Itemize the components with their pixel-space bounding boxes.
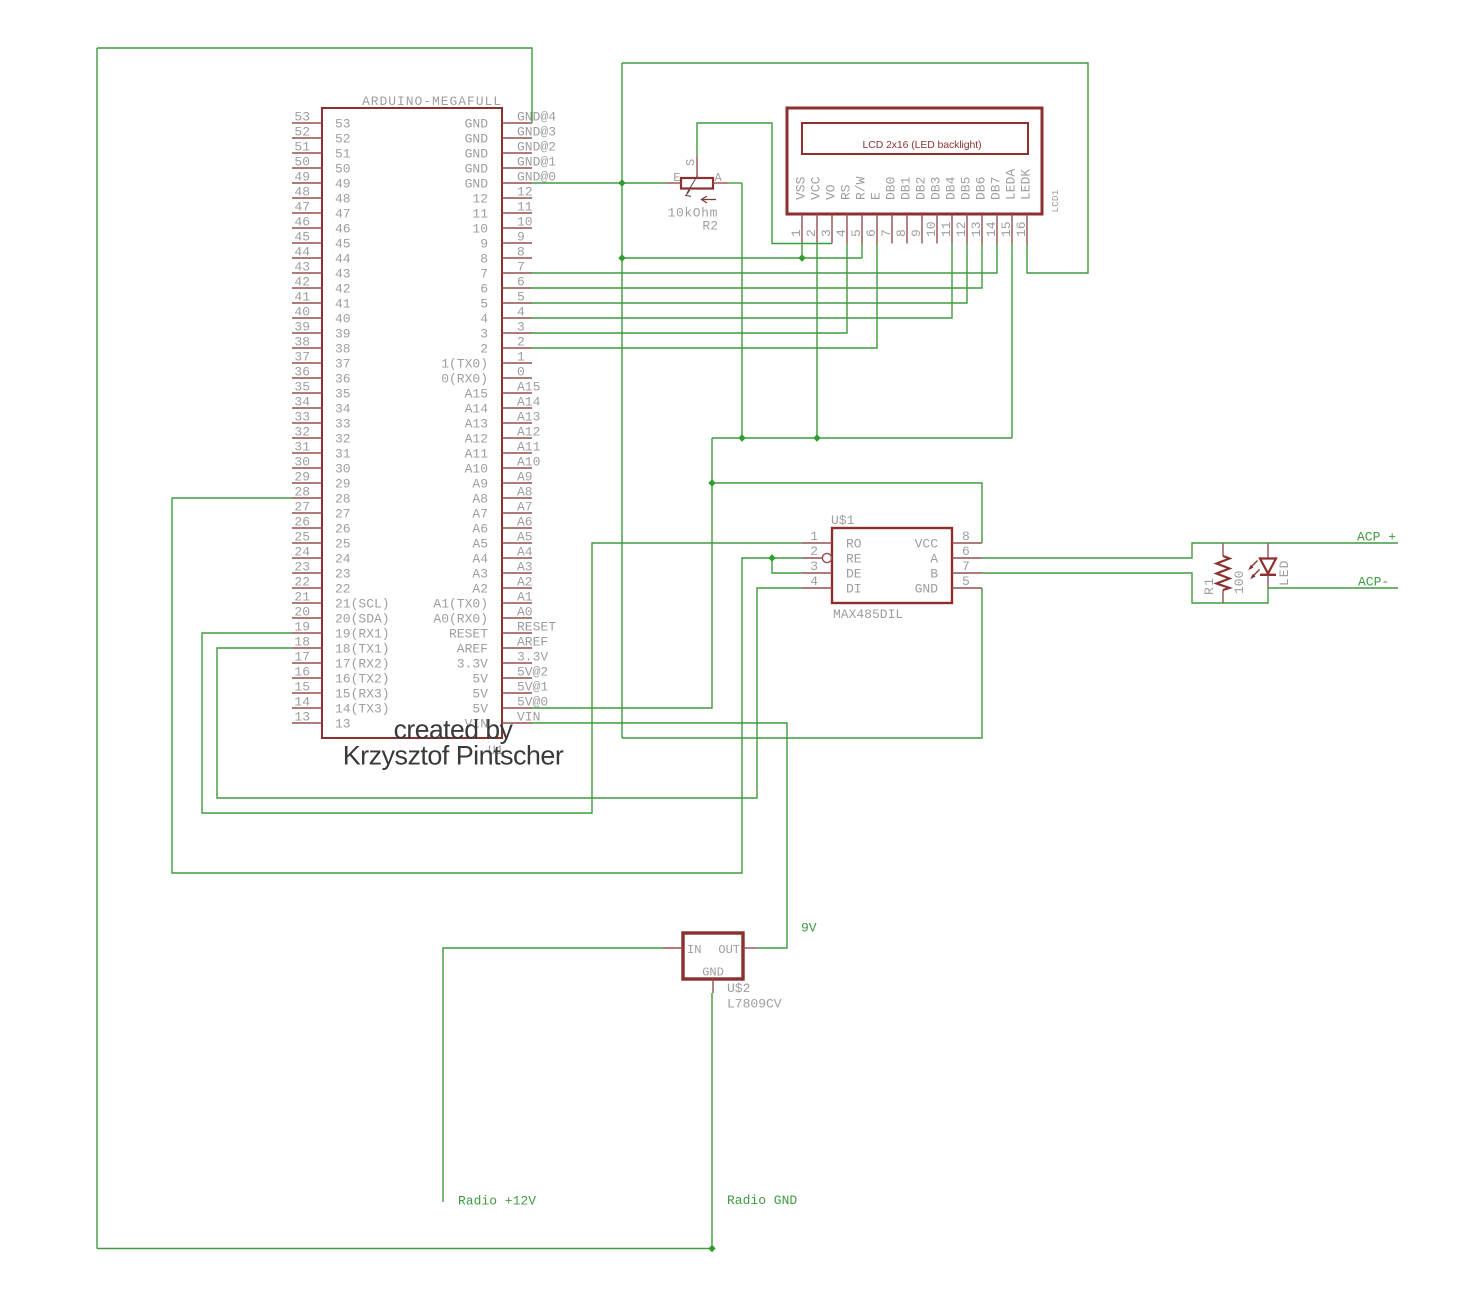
svg-text:VSS: VSS xyxy=(794,176,809,200)
svg-text:12: 12 xyxy=(472,192,488,207)
svg-text:LEDA: LEDA xyxy=(1004,169,1019,200)
svg-text:53: 53 xyxy=(335,117,351,132)
svg-text:5: 5 xyxy=(849,229,864,237)
svg-text:14: 14 xyxy=(984,221,999,237)
U1 pin 9 (right, 9) xyxy=(502,242,532,244)
svg-text:A6: A6 xyxy=(517,515,533,530)
U1 pin 18 (left, 18(TX1)) xyxy=(292,647,322,649)
svg-text:30: 30 xyxy=(335,462,351,477)
svg-text:7: 7 xyxy=(962,559,970,574)
svg-text:10: 10 xyxy=(924,221,939,237)
U1 pin 16 (left, 16(TX2)) xyxy=(292,677,322,679)
svg-text:1: 1 xyxy=(789,229,804,237)
wire net DI to Arduino 18(TX1) xyxy=(217,588,802,798)
svg-text:DB5: DB5 xyxy=(959,177,974,200)
U1 pin 17 (left, 17(RX2)) xyxy=(292,662,322,664)
U1 pin GND@0 (right, GND) xyxy=(502,182,532,184)
LCD1 pin 5 (R/W) xyxy=(861,214,863,244)
junction GND at LCD pin1 xyxy=(798,254,805,261)
svg-text:B: B xyxy=(930,567,938,582)
svg-text:VCC: VCC xyxy=(915,537,939,552)
svg-text:11: 11 xyxy=(517,200,533,215)
U1 pin 27 (left, 27) xyxy=(292,512,322,514)
svg-text:RE: RE xyxy=(846,552,862,567)
U1 pin 52 (left, 52) xyxy=(292,137,322,139)
wire +5V net: 5V@0 to riser xyxy=(531,438,712,708)
svg-text:5V@0: 5V@0 xyxy=(517,695,548,710)
svg-text:29: 29 xyxy=(294,470,310,485)
svg-text:49: 49 xyxy=(294,170,310,185)
svg-text:10: 10 xyxy=(472,222,488,237)
svg-text:6: 6 xyxy=(480,282,488,297)
svg-text:9V: 9V xyxy=(801,921,817,936)
svg-text:VO: VO xyxy=(824,184,839,200)
U1 pin 28 (left, 28) xyxy=(292,497,322,499)
svg-text:DI: DI xyxy=(846,582,862,597)
svg-text:U$1: U$1 xyxy=(831,513,855,528)
svg-text:5V@2: 5V@2 xyxy=(517,665,548,680)
svg-text:51: 51 xyxy=(335,147,351,162)
R2 pin A xyxy=(713,182,728,184)
U1 pin 15 (left, 15(RX3)) xyxy=(292,692,322,694)
junction GND at pot E split xyxy=(618,179,625,186)
svg-text:Krzysztof Pintscher: Krzysztof Pintscher xyxy=(343,741,564,771)
svg-text:DE: DE xyxy=(846,567,862,582)
svg-text:31: 31 xyxy=(294,440,310,455)
R2 wiper arrow xyxy=(687,176,698,194)
svg-text:9: 9 xyxy=(517,230,525,245)
svg-text:AREF: AREF xyxy=(457,642,488,657)
svg-text:28: 28 xyxy=(335,492,351,507)
svg-text:18(TX1): 18(TX1) xyxy=(335,642,390,657)
svg-text:E: E xyxy=(673,171,680,185)
svg-text:52: 52 xyxy=(294,125,310,140)
svg-text:Radio +12V: Radio +12V xyxy=(458,1194,536,1209)
U$2 pin IN xyxy=(663,947,683,949)
svg-text:5V: 5V xyxy=(472,672,488,687)
U1 pin A3 (right, A3) xyxy=(502,572,532,574)
svg-text:A15: A15 xyxy=(465,387,488,402)
regulator U$2 L7809CV body xyxy=(683,933,743,979)
svg-text:7: 7 xyxy=(517,260,525,275)
U1 pin 21 (left, 21(SCL)) xyxy=(292,602,322,604)
svg-text:3: 3 xyxy=(517,320,525,335)
svg-text:A11: A11 xyxy=(465,447,489,462)
U1 pin 19 (left, 19(RX1)) xyxy=(292,632,322,634)
svg-text:23: 23 xyxy=(294,560,310,575)
wire GND net: GND@0 to R2.E xyxy=(532,182,667,184)
svg-text:A11: A11 xyxy=(517,440,541,455)
svg-text:A: A xyxy=(930,552,938,567)
U1 pin 35 (left, 35) xyxy=(292,392,322,394)
svg-text:AREF: AREF xyxy=(517,635,548,650)
U1 pin 42 (left, 42) xyxy=(292,287,322,289)
svg-text:R/W: R/W xyxy=(854,176,869,200)
LCD1 pin 13 (DB6) xyxy=(981,214,983,244)
svg-text:ARDUINO-MEGAFULL: ARDUINO-MEGAFULL xyxy=(362,94,502,109)
LCD1 pin 10 (DB3) xyxy=(936,214,938,244)
svg-text:GND@3: GND@3 xyxy=(517,125,556,140)
svg-text:A12: A12 xyxy=(465,432,488,447)
wire GND net: left rail down xyxy=(96,48,98,1249)
svg-text:LEDK: LEDK xyxy=(1019,169,1034,200)
svg-text:ACP +: ACP + xyxy=(1357,530,1396,545)
U1 pin AREF (right, AREF) xyxy=(502,647,532,649)
svg-text:A1: A1 xyxy=(517,590,533,605)
svg-text:38: 38 xyxy=(294,335,310,350)
svg-text:R1: R1 xyxy=(1202,577,1217,595)
svg-text:22: 22 xyxy=(335,582,351,597)
svg-text:RESET: RESET xyxy=(449,627,488,642)
wire net RO to Arduino 19(RX1) xyxy=(202,543,802,813)
svg-text:28: 28 xyxy=(294,485,310,500)
U1 pin A4 (right, A4) xyxy=(502,557,532,559)
junction RE/DE xyxy=(768,554,775,561)
svg-text:E: E xyxy=(869,192,884,200)
U1 pin 10 (right, 10) xyxy=(502,227,532,229)
svg-text:DB3: DB3 xyxy=(929,177,944,200)
svg-text:6: 6 xyxy=(517,275,525,290)
U$1 pin 5 (GND) xyxy=(952,587,982,589)
U$2 pin OUT xyxy=(743,947,757,949)
svg-text:37: 37 xyxy=(335,357,351,372)
U1 pin 36 (left, 36) xyxy=(292,377,322,379)
LED diode symbol xyxy=(1267,543,1269,559)
svg-text:RO: RO xyxy=(846,537,862,552)
U1 pin A13 (right, A13) xyxy=(502,422,532,424)
svg-text:3: 3 xyxy=(480,327,488,342)
svg-text:22: 22 xyxy=(294,575,310,590)
svg-text:26: 26 xyxy=(294,515,310,530)
U1 pin GND@3 (right, GND) xyxy=(502,137,532,139)
U1 pin VIN (right, VIN) xyxy=(502,722,532,724)
svg-text:44: 44 xyxy=(335,252,351,267)
LCD1 pin 1 (VSS) xyxy=(801,214,803,244)
svg-text:43: 43 xyxy=(335,267,351,282)
svg-text:2: 2 xyxy=(517,335,525,350)
U1 pin GND@2 (right, GND) xyxy=(502,152,532,154)
LCD1 pin 11 (DB4) xyxy=(951,214,953,244)
svg-text:3: 3 xyxy=(810,559,818,574)
svg-text:16(TX2): 16(TX2) xyxy=(335,672,390,687)
U$1 pin 4 (DI) xyxy=(802,587,832,589)
svg-text:48: 48 xyxy=(335,192,351,207)
wire net B to ACP- label xyxy=(1268,587,1398,589)
U1 pin 0 (right, 0(RX0)) xyxy=(502,377,532,379)
svg-text:45: 45 xyxy=(294,230,310,245)
svg-text:5: 5 xyxy=(517,290,525,305)
svg-text:40: 40 xyxy=(294,305,310,320)
potentiometer R2 body xyxy=(681,178,713,189)
LCD1 pin 14 (DB7) xyxy=(996,214,998,244)
svg-text:32: 32 xyxy=(335,432,351,447)
wire 9V net: VIN to U$2 OUT xyxy=(531,723,787,948)
svg-text:34: 34 xyxy=(335,402,351,417)
U1 pin 13 (left, 13) xyxy=(292,722,322,724)
U1 pin 31 (left, 31) xyxy=(292,452,322,454)
U1 pin A5 (right, A5) xyxy=(502,542,532,544)
svg-text:19: 19 xyxy=(294,620,310,635)
wire net LCD E to Arduino 2 xyxy=(531,244,877,349)
U1 pin 40 (left, 40) xyxy=(292,317,322,319)
wire +5V net: LEDA drop xyxy=(1011,244,1013,439)
svg-text:A9: A9 xyxy=(517,470,533,485)
svg-text:43: 43 xyxy=(294,260,310,275)
U1 pin 51 (left, 51) xyxy=(292,152,322,154)
svg-text:A7: A7 xyxy=(472,507,488,522)
svg-text:47: 47 xyxy=(294,200,310,215)
svg-text:GND@2: GND@2 xyxy=(517,140,556,155)
svg-text:8: 8 xyxy=(517,245,525,260)
svg-text:17(RX2): 17(RX2) xyxy=(335,657,390,672)
IC U$1 MAX485DIL body xyxy=(832,528,952,603)
U1 pin A8 (right, A8) xyxy=(502,497,532,499)
svg-text:20: 20 xyxy=(294,605,310,620)
LCD1 pin 4 (RS) xyxy=(846,214,848,244)
LCD1 pin 12 (DB5) xyxy=(966,214,968,244)
svg-text:LCD 2x16 (LED backlight): LCD 2x16 (LED backlight) xyxy=(863,139,982,151)
U1 pin 5 (right, 5) xyxy=(502,302,532,304)
U1 pin 23 (left, 23) xyxy=(292,572,322,574)
U1 pin 44 (left, 44) xyxy=(292,257,322,259)
svg-text:DB1: DB1 xyxy=(899,176,914,200)
svg-text:48: 48 xyxy=(294,185,310,200)
U1 pin A10 (right, A10) xyxy=(502,467,532,469)
LED emission arrows xyxy=(1250,561,1258,569)
U1 pin A9 (right, A9) xyxy=(502,482,532,484)
svg-text:44: 44 xyxy=(294,245,310,260)
svg-text:6: 6 xyxy=(962,544,970,559)
U$2 pin GND xyxy=(712,979,714,993)
svg-text:LCD1: LCD1 xyxy=(1050,189,1061,212)
svg-text:49: 49 xyxy=(335,177,351,192)
svg-text:24: 24 xyxy=(335,552,351,567)
svg-text:GND: GND xyxy=(702,966,724,980)
LCD1 pin 7 (DB0) xyxy=(891,214,893,244)
U1 pin 25 (left, 25) xyxy=(292,542,322,544)
svg-text:A9: A9 xyxy=(472,477,488,492)
svg-text:L7809CV: L7809CV xyxy=(727,997,782,1012)
svg-text:A3: A3 xyxy=(472,567,488,582)
R2 pin S (wiper) xyxy=(696,156,698,179)
svg-text:DB7: DB7 xyxy=(989,177,1004,200)
wire net LCD DB7 to Arduino 7 xyxy=(531,244,997,274)
svg-text:MAX485DIL: MAX485DIL xyxy=(833,607,903,622)
U1 pin 43 (left, 43) xyxy=(292,272,322,274)
U1 pin 41 (left, 41) xyxy=(292,302,322,304)
svg-text:5: 5 xyxy=(480,297,488,312)
svg-text:13: 13 xyxy=(969,221,984,237)
U1 pin 14 (left, 14(TX3)) xyxy=(292,707,322,709)
LCD1 pin 3 (VO) xyxy=(831,214,833,244)
resistor R1 zigzag body xyxy=(1217,556,1230,590)
junction +5V at R2.A xyxy=(738,434,745,441)
wire net RE/DE jog to DE xyxy=(772,558,802,573)
svg-text:GND: GND xyxy=(465,147,489,162)
svg-text:4: 4 xyxy=(517,305,525,320)
svg-text:21(SCL): 21(SCL) xyxy=(335,597,390,612)
svg-text:31: 31 xyxy=(335,447,351,462)
svg-text:A0(RX0): A0(RX0) xyxy=(433,612,488,627)
svg-text:18: 18 xyxy=(294,635,310,650)
U$1 pin 7 (B) xyxy=(952,572,982,574)
junction Radio GND at bottom rail xyxy=(708,1245,715,1252)
svg-text:1(TX0): 1(TX0) xyxy=(441,357,488,372)
svg-text:32: 32 xyxy=(294,425,310,440)
svg-text:ACP-: ACP- xyxy=(1358,575,1389,590)
svg-text:A0: A0 xyxy=(517,605,533,620)
svg-text:27: 27 xyxy=(335,507,351,522)
svg-text:GND@1: GND@1 xyxy=(517,155,556,170)
U1 pin 5V@2 (right, 5V) xyxy=(502,677,532,679)
svg-text:41: 41 xyxy=(335,297,351,312)
svg-text:42: 42 xyxy=(294,275,310,290)
svg-text:1: 1 xyxy=(810,529,818,544)
svg-text:50: 50 xyxy=(335,162,351,177)
svg-text:40: 40 xyxy=(335,312,351,327)
wire net LCD DB4 to Arduino 4 xyxy=(531,244,952,319)
svg-text:A12: A12 xyxy=(517,425,540,440)
svg-text:39: 39 xyxy=(294,320,310,335)
svg-text:DB6: DB6 xyxy=(974,177,989,200)
svg-text:12: 12 xyxy=(954,221,969,237)
LCD1 pin 9 (DB2) xyxy=(921,214,923,244)
svg-text:GND@4: GND@4 xyxy=(517,110,556,125)
svg-text:GND@0: GND@0 xyxy=(517,170,556,185)
wire net B (ACP-) xyxy=(982,573,1268,603)
U1 pin 30 (left, 30) xyxy=(292,467,322,469)
U1 pin A6 (right, A6) xyxy=(502,527,532,529)
U1 pin 47 (left, 47) xyxy=(292,212,322,214)
LCD1 pin 6 (E) xyxy=(876,214,878,244)
svg-text:3: 3 xyxy=(819,229,834,237)
svg-text:GND: GND xyxy=(465,132,489,147)
svg-text:VIN: VIN xyxy=(517,710,540,725)
svg-text:DB0: DB0 xyxy=(884,177,899,200)
svg-text:IN: IN xyxy=(687,943,701,957)
svg-text:2: 2 xyxy=(804,229,819,237)
svg-text:21: 21 xyxy=(294,590,310,605)
wire GND net: LCD R/W stub xyxy=(861,244,863,259)
U1 pin GND@4 (right, GND) xyxy=(502,122,532,124)
svg-text:37: 37 xyxy=(294,350,310,365)
svg-text:R2: R2 xyxy=(702,219,718,234)
svg-text:3.3V: 3.3V xyxy=(457,657,488,672)
svg-text:27: 27 xyxy=(294,500,310,515)
U1 pin A14 (right, A14) xyxy=(502,407,532,409)
U1 pin 6 (right, 6) xyxy=(502,287,532,289)
U1 pin 5V@1 (right, 5V) xyxy=(502,692,532,694)
U$1 pin 2 (RE) xyxy=(802,557,822,559)
svg-text:A5: A5 xyxy=(472,537,488,552)
U1 pin 49 (left, 49) xyxy=(292,182,322,184)
svg-text:7: 7 xyxy=(879,229,894,237)
junction +5V at LCD VCC xyxy=(813,434,820,441)
svg-text:6: 6 xyxy=(864,229,879,237)
svg-text:35: 35 xyxy=(335,387,351,402)
wire +5V net: R2.A drop xyxy=(728,182,743,184)
LCD1 pin 2 (VCC) xyxy=(816,214,818,244)
R2 pin E xyxy=(667,182,681,184)
svg-text:5V: 5V xyxy=(472,687,488,702)
svg-text:10: 10 xyxy=(517,215,533,230)
svg-text:36: 36 xyxy=(335,372,351,387)
svg-text:A1(TX0): A1(TX0) xyxy=(433,597,488,612)
U1 pin 3.3V (right, 3.3V) xyxy=(502,662,532,664)
svg-text:2: 2 xyxy=(810,544,818,559)
svg-text:A7: A7 xyxy=(517,500,533,515)
svg-text:A10: A10 xyxy=(465,462,488,477)
svg-text:A15: A15 xyxy=(517,380,540,395)
svg-text:A5: A5 xyxy=(517,530,533,545)
svg-text:34: 34 xyxy=(294,395,310,410)
U1 pin RESET (right, RESET) xyxy=(502,632,532,634)
wire net RE/DE to Arduino 28 xyxy=(172,498,802,873)
svg-text:50: 50 xyxy=(294,155,310,170)
svg-text:30: 30 xyxy=(294,455,310,470)
svg-text:A14: A14 xyxy=(465,402,489,417)
svg-text:4: 4 xyxy=(810,574,818,589)
svg-text:A13: A13 xyxy=(517,410,540,425)
U1 pin 5V@0 (right, 5V) xyxy=(502,707,532,709)
U1 pin 37 (left, 37) xyxy=(292,362,322,364)
svg-text:4: 4 xyxy=(480,312,488,327)
svg-text:RS: RS xyxy=(839,184,854,200)
U1 pin 3 (right, 3) xyxy=(502,332,532,334)
U1 pin A7 (right, A7) xyxy=(502,512,532,514)
svg-text:9: 9 xyxy=(909,229,924,237)
wire +5V net: branch to U$1 VCC xyxy=(712,483,982,543)
U1 pin 50 (left, 50) xyxy=(292,167,322,169)
U1 pin 8 (right, 8) xyxy=(502,257,532,259)
wire VO net: R2.S to LCD VO xyxy=(697,123,832,244)
svg-text:9: 9 xyxy=(480,237,488,252)
U1 pin 33 (left, 33) xyxy=(292,422,322,424)
svg-text:8: 8 xyxy=(894,229,909,237)
svg-text:25: 25 xyxy=(335,537,351,552)
U1 pin A1 (right, A1(TX0)) xyxy=(502,602,532,604)
wire net LCD RS to Arduino 3 xyxy=(531,244,847,334)
wire GND net: lower rail y=738 to U$1 GND xyxy=(622,588,982,738)
svg-text:A4: A4 xyxy=(472,552,488,567)
wire GND net: riser to U$2 GND (Radio GND) xyxy=(711,993,713,1249)
LCD1 display window xyxy=(802,123,1028,154)
U$1 pin 8 (VCC) xyxy=(952,542,982,544)
svg-text:1: 1 xyxy=(517,350,525,365)
svg-text:16: 16 xyxy=(1014,221,1029,237)
svg-text:12: 12 xyxy=(517,185,533,200)
svg-text:15: 15 xyxy=(294,680,310,695)
U1 pin 34 (left, 34) xyxy=(292,407,322,409)
svg-text:29: 29 xyxy=(335,477,351,492)
wire GND net: top rail from left rail to GND@4 xyxy=(97,48,532,123)
U1 pin 38 (left, 38) xyxy=(292,347,322,349)
svg-text:A13: A13 xyxy=(465,417,488,432)
component LCD1 body xyxy=(787,108,1042,214)
svg-text:A2: A2 xyxy=(517,575,533,590)
svg-text:DB2: DB2 xyxy=(914,177,929,200)
U1 pin 45 (left, 45) xyxy=(292,242,322,244)
svg-text:46: 46 xyxy=(335,222,351,237)
U1 pin A12 (right, A12) xyxy=(502,437,532,439)
svg-text:S: S xyxy=(684,159,698,166)
U1 pin 12 (right, 12) xyxy=(502,197,532,199)
svg-text:26: 26 xyxy=(335,522,351,537)
svg-text:DB4: DB4 xyxy=(944,176,959,200)
U1 pin 39 (left, 39) xyxy=(292,332,322,334)
U1 pin 4 (right, 4) xyxy=(502,317,532,319)
svg-text:11: 11 xyxy=(939,221,954,237)
